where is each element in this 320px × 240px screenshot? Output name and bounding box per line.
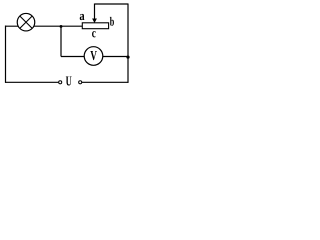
label a (80, 14, 85, 20)
rheostat slider (wiper arrow) (92, 19, 97, 24)
wire: left vertical side (5, 26, 7, 83)
wire: top horizontal from left corner to rheostat (6, 25, 83, 27)
wire: voltmeter right horizontal (103, 56, 129, 58)
label c (92, 31, 96, 37)
rheostat R1 body (82, 23, 108, 29)
wire: junction to voltmeter vertical (60, 26, 62, 56)
lamp L1 (circle with X) (17, 13, 35, 31)
wire: slider stem vertical (94, 4, 96, 21)
wire: bottom right segment (82, 81, 129, 83)
wire: voltmeter left horizontal (61, 56, 85, 58)
wire: top right horizontal (95, 3, 129, 5)
wire: right vertical side (127, 4, 129, 83)
terminal right (open circle) (79, 81, 82, 84)
junction node on right vertical (126, 56, 129, 59)
terminal left (open circle) (59, 81, 62, 84)
wire: bottom left segment (5, 81, 58, 83)
junction node on top wire (60, 25, 63, 28)
label U (source voltage) (66, 76, 72, 85)
label b (110, 17, 114, 26)
voltmeter V (84, 47, 103, 66)
